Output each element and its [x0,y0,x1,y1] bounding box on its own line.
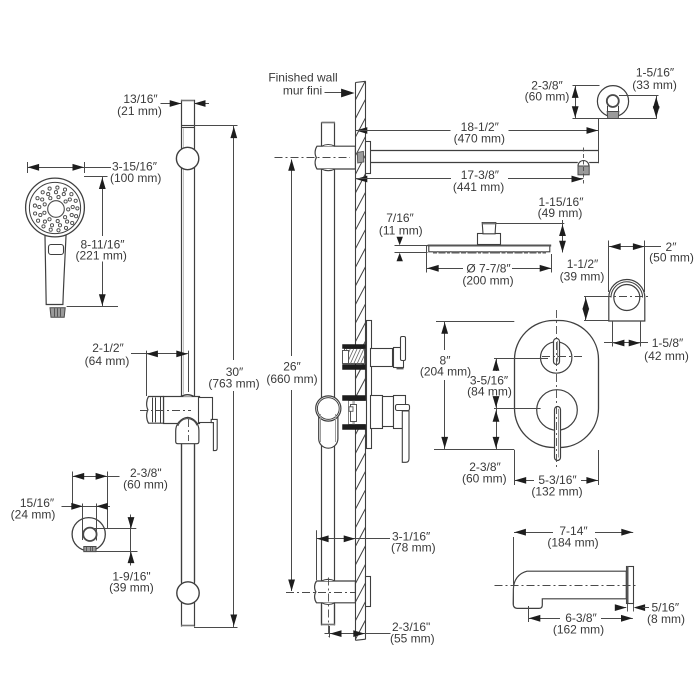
svg-text:(21 mm): (21 mm) [117,104,162,118]
svg-text:(49 mm): (49 mm) [538,206,583,220]
svg-text:(60 mm): (60 mm) [525,89,570,103]
svg-text:1-5/8″: 1-5/8″ [652,336,684,350]
dimension 3-15/16in (100 mm) hand shower width [27,160,161,185]
valve trim plate with diverter + volume knobs (front view) [515,310,599,470]
dimension 5/16in (8 mm) flange thickness [615,601,685,627]
svg-text:(39 mm): (39 mm) [109,580,154,594]
wall supply elbow (front view, right) [603,280,651,322]
dimension 13/16in (21 mm) bar width [117,92,209,118]
svg-text:(33 mm): (33 mm) [632,78,677,92]
svg-text:(64 mm): (64 mm) [85,354,130,368]
wall (finished wall, hatched) [355,81,365,677]
dimension 7/16in (11 mm) head thickness [379,211,429,261]
svg-text:mur fini: mur fini [283,84,322,98]
svg-text:(11 mm): (11 mm) [379,223,423,237]
dimension 15/16in (24 mm) elbow stub [11,496,110,541]
dimension 1-1/2in (39 mm) elbow height [560,257,609,321]
svg-text:(100 mm): (100 mm) [110,171,161,185]
svg-text:(55 mm): (55 mm) [390,631,435,645]
svg-text:(221 mm): (221 mm) [76,248,127,262]
shower valve rough-in (behind wall, top) [340,345,378,370]
dimension 17-3/8in (441 mm) to head center [356,168,584,194]
dimension 2-3/8in (60 mm) escutcheon [525,79,657,119]
svg-text:Finished wall: Finished wall [268,71,337,85]
dimension 1-5/16in (33 mm) escutcheon depth [619,65,677,119]
dimension 26in (660 mm) bracket spacing [266,159,317,591]
dimension 30in (763 mm) bar length [194,125,260,627]
svg-text:(8 mm): (8 mm) [647,612,685,626]
svg-text:(763 mm): (763 mm) [208,376,259,390]
volume control trim + handle (upper) [371,337,406,369]
slide bar 2 (center, side view) [322,122,336,625]
svg-text:(132 mm): (132 mm) [531,485,582,499]
svg-text:(24 mm): (24 mm) [11,508,56,522]
dimension diameter 7-7/8in (200 mm) head [427,246,552,287]
svg-text:(470 mm): (470 mm) [454,132,505,146]
dimension 8in (204 mm) plate height [420,321,514,449]
rain shower head (side view) [428,223,552,253]
dimension 2-1/2in (64 mm) slider offset [85,341,189,396]
slide bar 2 bottom bracket (wall mount) [286,577,371,638]
svg-text:(78 mm): (78 mm) [391,540,436,554]
dimension 1-9/16in (39 mm) elbow [92,515,154,595]
shower valve rough-in (behind wall, bottom) [343,396,367,430]
dimension 2in (50 mm) elbow width [609,240,694,292]
svg-text:(184 mm): (184 mm) [547,536,598,550]
svg-text:(660 mm): (660 mm) [266,372,317,386]
svg-text:(60 mm): (60 mm) [462,472,507,486]
tub spout (side view) [495,566,636,612]
svg-text:(60 mm): (60 mm) [123,478,168,492]
slide bar 1 top bracket [176,147,198,169]
hand shower (head, handle, spray face) [26,178,85,317]
dimension 2-3/8in (60 mm) elbow flange [72,466,168,528]
label finished wall / mur fini with leader [268,71,354,98]
dimension 6-3/8in (162 mm) spout reach [528,606,633,636]
svg-text:(204 mm): (204 mm) [420,365,471,379]
slide bar 1 bottom bracket [177,582,199,604]
hand shower holder ring on slide bar 2 [316,396,341,448]
svg-text:(162 mm): (162 mm) [553,622,604,636]
dimension 7-14in (184 mm) spout length [514,524,634,606]
wall supply elbow (front view, bottom left) [72,518,105,552]
shower arm (wall to rain head) [371,119,599,184]
dimension 1-5/8in (42 mm) elbow base [604,321,689,363]
shower arm escutcheon (top right) [597,86,628,119]
svg-text:(84 mm): (84 mm) [467,385,512,399]
dimension 3-5/16in (84 mm) knob spacing [467,358,548,408]
dimension 8-11/16in (221 mm) hand shower length [67,177,127,307]
main valve trim + lever handle (lower) [371,396,410,463]
dimension 5-3/16in (132 mm) plate width [514,450,598,499]
dimension 3-1/16in (78 mm) bar to wall [317,530,436,581]
dimension 2-3/8in (60 mm) knob to plate edge [462,409,507,486]
svg-text:(441 mm): (441 mm) [453,180,504,194]
svg-text:(50 mm): (50 mm) [649,251,694,265]
slider assembly with hand shower holder (left bar) [140,395,217,582]
svg-text:(39 mm): (39 mm) [560,269,605,283]
valve trim plate (side view on wall) [367,321,372,449]
slide bar 2 top bracket (wall mount) [275,142,371,174]
dimension 18-1/2in (470 mm) arm length [356,120,598,145]
svg-text:(42 mm): (42 mm) [644,349,689,363]
dimension 1-15/16in (49 mm) connector height [496,195,584,253]
dimension 2-3/16in (55 mm) bar end to wall [325,620,435,645]
slide bar 1 (left, front view) [181,100,194,627]
svg-text:(200 mm): (200 mm) [462,273,513,287]
